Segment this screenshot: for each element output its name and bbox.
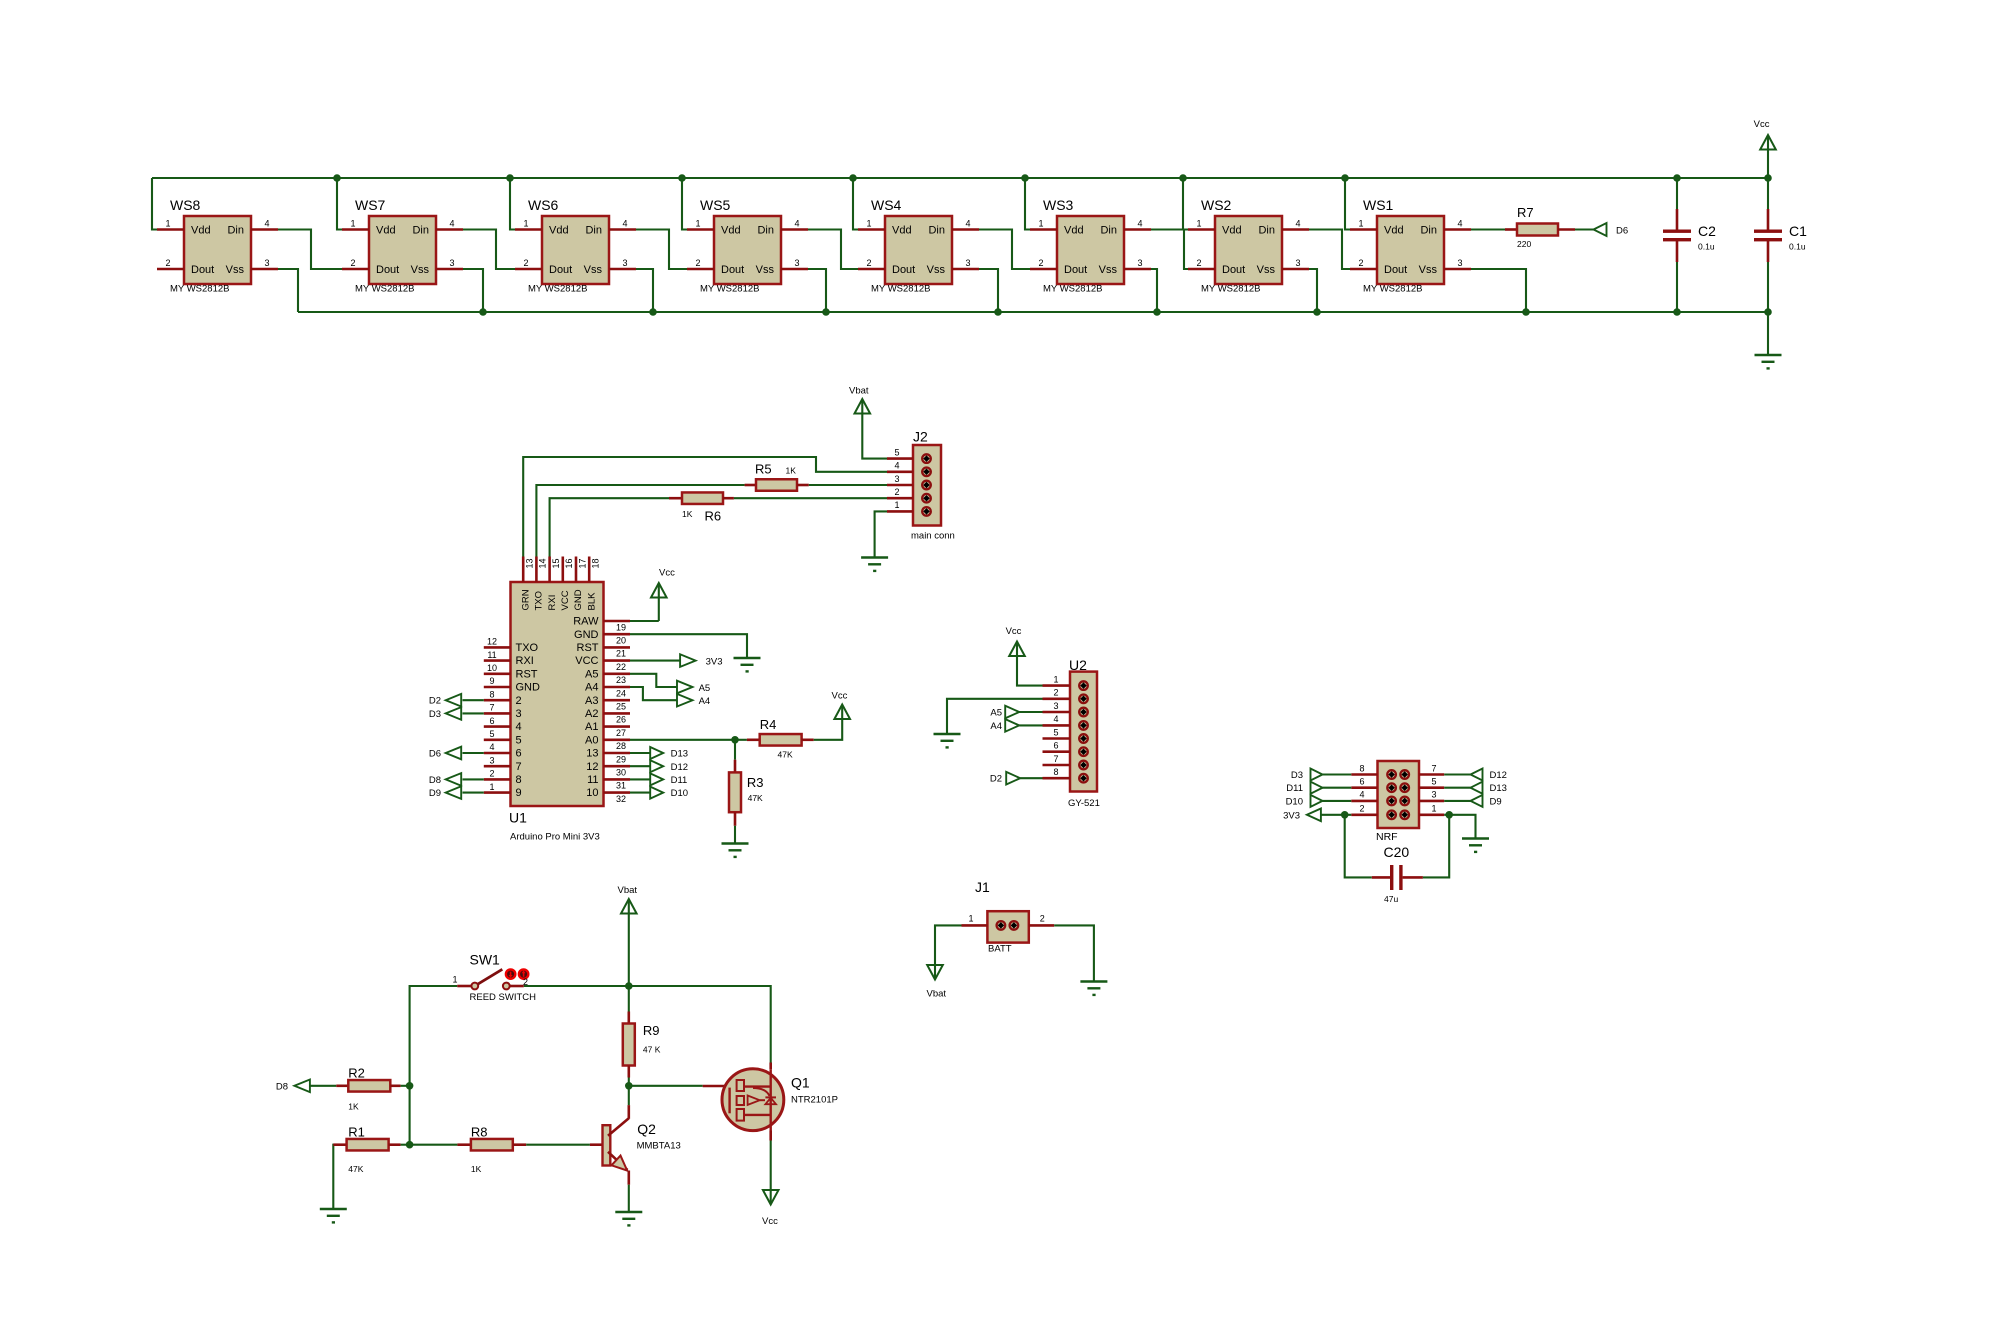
transistor Q1 (703, 1085, 725, 1088)
LED driver WS2 (1215, 216, 1282, 284)
svg-text:1: 1 (1038, 219, 1043, 229)
U1 left pin stubs (484, 646, 511, 649)
svg-text:3V3: 3V3 (706, 657, 723, 668)
svg-text:BATT: BATT (988, 944, 1012, 955)
svg-text:3: 3 (489, 755, 494, 765)
svg-text:Q1: Q1 (791, 1075, 810, 1091)
svg-text:MY WS2812B: MY WS2812B (700, 284, 760, 295)
svg-text:4: 4 (1295, 219, 1300, 229)
net label terminal D11 (650, 773, 663, 785)
svg-text:TXO: TXO (534, 591, 545, 611)
WS3 pin 2 Dout stub (1030, 268, 1057, 271)
svg-text:2: 2 (1053, 688, 1058, 698)
LED driver WS4 (885, 216, 952, 284)
wire R1 ground branch (333, 1145, 348, 1209)
net label terminal D6 (1594, 223, 1607, 236)
svg-text:4: 4 (449, 219, 454, 229)
svg-text:MY WS2812B: MY WS2812B (355, 284, 415, 295)
WS2 pin 4 Din stub (1282, 228, 1309, 231)
wire A4 to U2 pin 4 (1019, 724, 1042, 726)
svg-text:GY-521: GY-521 (1068, 798, 1100, 809)
svg-text:MMBTA13: MMBTA13 (637, 1141, 681, 1152)
wire NRF pin 1 to ground (1444, 815, 1475, 839)
svg-text:22: 22 (616, 662, 626, 672)
svg-text:C2: C2 (1698, 223, 1716, 239)
svg-text:Vss: Vss (1419, 264, 1438, 276)
wire WS1 Vss to bottom bus (1471, 269, 1526, 312)
net label terminal D13 (650, 747, 663, 759)
wire switch node to Q1 source (629, 986, 771, 1063)
svg-text:MY WS2812B: MY WS2812B (170, 284, 230, 295)
svg-text:18: 18 (591, 558, 601, 568)
WS8 pin 1 Vdd stub (157, 228, 184, 231)
svg-text:D9: D9 (1490, 796, 1502, 807)
wire WS6 Vss to bottom bus (636, 269, 653, 312)
svg-text:R3: R3 (747, 775, 764, 790)
svg-text:2: 2 (1359, 804, 1364, 814)
WS1 pin 3 Vss stub (1444, 268, 1471, 271)
svg-text:6: 6 (489, 716, 494, 726)
svg-text:2: 2 (516, 695, 522, 707)
svg-text:1: 1 (489, 782, 494, 792)
switch SW1 (457, 985, 471, 988)
svg-text:19: 19 (616, 622, 626, 632)
WS8 pin 4 Din stub (251, 228, 278, 231)
svg-text:3: 3 (965, 258, 970, 268)
svg-text:20: 20 (616, 636, 626, 646)
wire top bus to C2 (1676, 178, 1678, 209)
svg-text:A4: A4 (699, 696, 711, 707)
svg-text:3: 3 (264, 258, 269, 268)
svg-text:32: 32 (616, 794, 626, 804)
svg-text:Vss: Vss (927, 264, 946, 276)
svg-text:Vdd: Vdd (1064, 225, 1084, 237)
svg-text:9: 9 (516, 787, 522, 799)
wire U2 pin 2 to ground (947, 699, 1043, 734)
power terminal Vbat down at J1 (927, 965, 943, 980)
svg-text:D2: D2 (990, 774, 1002, 785)
svg-text:5: 5 (894, 447, 899, 457)
WS5 pin 4 Din stub (781, 228, 808, 231)
LED driver WS8 (184, 216, 251, 284)
svg-text:Dout: Dout (892, 264, 915, 276)
svg-text:4: 4 (1457, 219, 1462, 229)
power terminal Vbat at switch node (628, 914, 630, 987)
svg-text:R8: R8 (471, 1125, 488, 1140)
wire WS8 Vss to bottom bus (278, 269, 298, 312)
junction top bus WS4 (849, 174, 857, 182)
svg-text:5: 5 (1053, 727, 1058, 737)
svg-text:D6: D6 (429, 748, 441, 759)
net label terminal D12 (650, 760, 663, 772)
WS3 pin 1 Vdd stub (1030, 228, 1057, 231)
wire NRF to D9 (1444, 800, 1470, 802)
wire U1 pin14 TXO to R5 (536, 485, 744, 557)
svg-text:WS7: WS7 (355, 197, 386, 213)
wire switch to Vbat junction (524, 985, 629, 987)
net label terminal A5 at U2 (1005, 706, 1019, 719)
svg-text:main conn: main conn (911, 531, 955, 542)
svg-text:A5: A5 (585, 668, 598, 680)
svg-text:MY WS2812B: MY WS2812B (1201, 284, 1261, 295)
NRF pin circles (1387, 770, 1396, 779)
svg-text:REED SWITCH: REED SWITCH (470, 992, 537, 1003)
net label terminal D6 (446, 747, 462, 760)
svg-text:GND: GND (574, 629, 599, 641)
power terminal Vcc at R4 (834, 705, 850, 720)
net label terminal D11 at NRF (1311, 782, 1323, 794)
svg-text:WS3: WS3 (1043, 197, 1074, 213)
svg-text:R9: R9 (643, 1023, 660, 1038)
svg-text:Arduino Pro Mini 3V3: Arduino Pro Mini 3V3 (510, 832, 600, 843)
net label terminal D10 at NRF (1311, 795, 1323, 807)
svg-text:Vcc: Vcc (1754, 119, 1770, 130)
svg-text:1: 1 (1431, 804, 1436, 814)
svg-text:SW1: SW1 (470, 952, 501, 968)
WS1 pin 1 Vdd stub (1350, 228, 1377, 231)
svg-text:WS2: WS2 (1201, 197, 1232, 213)
svg-text:Vbat: Vbat (849, 386, 869, 397)
svg-text:3V3: 3V3 (1283, 810, 1300, 821)
resistor R6 (669, 497, 682, 500)
svg-text:1: 1 (1053, 674, 1058, 684)
svg-text:6: 6 (1359, 777, 1364, 787)
svg-text:A5: A5 (699, 683, 711, 694)
NRF pin stubs right (1419, 773, 1444, 776)
svg-text:10: 10 (586, 787, 598, 799)
wire gate node to Q1 gate (629, 1085, 703, 1087)
resistor R7 (1471, 228, 1505, 230)
wire D3 to NRF (1323, 773, 1352, 775)
svg-text:C20: C20 (1384, 844, 1410, 860)
svg-text:Din: Din (227, 225, 244, 237)
wire U1 pin 10 to D10 (630, 792, 650, 794)
svg-text:R4: R4 (760, 717, 777, 732)
WS8 pin 3 Vss stub (251, 268, 278, 271)
svg-text:1K: 1K (682, 509, 693, 519)
wire WS4 Vss to bottom bus (979, 269, 998, 312)
svg-text:4: 4 (794, 219, 799, 229)
svg-text:4: 4 (894, 461, 899, 471)
svg-text:A4: A4 (990, 721, 1002, 732)
svg-text:D3: D3 (1291, 770, 1303, 781)
WS6 pin 2 Dout stub (515, 268, 542, 271)
svg-text:D10: D10 (671, 788, 688, 799)
svg-text:23: 23 (616, 675, 626, 685)
wire WS5 Vss to bottom bus (808, 269, 826, 312)
wire bottom bus to ground (1767, 312, 1769, 355)
svg-text:4: 4 (516, 721, 522, 733)
svg-text:7: 7 (1431, 763, 1436, 773)
svg-text:R7: R7 (1517, 205, 1534, 220)
net label terminal D3 at NRF (1311, 769, 1323, 781)
svg-text:BLK: BLK (586, 592, 597, 611)
svg-text:5: 5 (1431, 777, 1436, 787)
wire U1 RAW to Vcc (630, 620, 659, 622)
wire R6 to J2 pin 2 (734, 497, 887, 499)
wire U1 pin13 GRN to J2 pin 4 (523, 457, 887, 557)
svg-text:15: 15 (551, 558, 561, 568)
WS6 pin 1 Vdd stub (515, 228, 542, 231)
svg-text:1K: 1K (348, 1102, 359, 1112)
svg-text:A3: A3 (585, 695, 598, 707)
LED driver WS5 (714, 216, 781, 284)
junction top bus WS6 (506, 174, 514, 182)
wire switch left branch (410, 986, 458, 1086)
net label terminal D10 (650, 787, 663, 799)
svg-text:RST: RST (577, 642, 599, 654)
svg-text:Q2: Q2 (637, 1121, 656, 1137)
svg-text:Vbat: Vbat (927, 989, 947, 1000)
svg-text:D10: D10 (1286, 796, 1303, 807)
wire D11 to NRF (1323, 787, 1352, 789)
svg-text:Din: Din (412, 225, 429, 237)
wire U1 left to D8 (463, 778, 484, 780)
junction switch Vbat R9 (625, 982, 633, 990)
svg-text:26: 26 (616, 715, 626, 725)
svg-text:Vdd: Vdd (1222, 225, 1242, 237)
wire J1 pin 1 to Vbat (935, 925, 962, 964)
SW1 toggle indicators (506, 969, 515, 978)
junction A0 node (731, 736, 739, 744)
svg-text:3: 3 (794, 258, 799, 268)
ground at J2 (861, 556, 888, 559)
wire WS3 Vss to bottom bus (1151, 269, 1157, 312)
svg-text:MY WS2812B: MY WS2812B (871, 284, 931, 295)
wire top bus to WS1 Vdd (1345, 178, 1350, 230)
WS2 pin 2 Dout stub (1188, 268, 1215, 271)
wire U1 A0 to R4 R3 node (630, 739, 735, 741)
WS6 pin 4 Din stub (609, 228, 636, 231)
net label terminal A4 (677, 694, 693, 707)
svg-text:47K: 47K (778, 749, 793, 759)
wire WS2 Din to WS1 Dout (1309, 230, 1350, 270)
wire Q1 drain to Vcc (770, 1141, 772, 1190)
wire U1 GND to ground (630, 634, 747, 658)
svg-text:Din: Din (585, 225, 602, 237)
svg-text:A2: A2 (585, 708, 598, 720)
svg-text:3: 3 (1295, 258, 1300, 268)
capacitor C2 (1676, 209, 1679, 231)
svg-text:7: 7 (489, 703, 494, 713)
svg-text:D13: D13 (1490, 783, 1507, 794)
svg-text:5: 5 (489, 729, 494, 739)
svg-text:R5: R5 (755, 462, 772, 477)
svg-text:1K: 1K (786, 466, 797, 476)
WS4 pin 3 Vss stub (952, 268, 979, 271)
ground at Q2 (615, 1211, 642, 1214)
svg-text:2: 2 (350, 258, 355, 268)
svg-text:Din: Din (1100, 225, 1117, 237)
svg-text:Vcc: Vcc (1006, 626, 1022, 637)
svg-text:MY WS2812B: MY WS2812B (1363, 284, 1423, 295)
svg-text:1: 1 (350, 219, 355, 229)
resistor R5 (745, 484, 756, 487)
svg-text:Vss: Vss (1257, 264, 1276, 276)
junction bottom bus WS5 (822, 308, 830, 316)
power terminal Vcc top right (1767, 150, 1769, 179)
svg-text:A5: A5 (990, 708, 1002, 719)
WS6 pin 3 Vss stub (609, 268, 636, 271)
svg-text:NRF: NRF (1376, 831, 1398, 843)
svg-text:Vss: Vss (584, 264, 603, 276)
WS4 pin 4 Din stub (952, 228, 979, 231)
svg-text:220: 220 (1517, 239, 1531, 249)
junction top bus WS1 (1341, 174, 1349, 182)
svg-text:2: 2 (1040, 914, 1045, 924)
junction top bus C2 (1673, 174, 1681, 182)
svg-text:Vcc: Vcc (832, 691, 848, 702)
svg-text:Dout: Dout (1384, 264, 1407, 276)
ground at NRF (1462, 837, 1489, 840)
svg-text:Vdd: Vdd (549, 225, 569, 237)
svg-text:GND: GND (516, 682, 541, 694)
svg-text:J1: J1 (975, 879, 990, 895)
wire R2 node down to R1 node (409, 1086, 411, 1145)
junction R9 Q2 collector gate (625, 1082, 633, 1090)
svg-text:21: 21 (616, 649, 626, 659)
svg-text:13: 13 (586, 748, 598, 760)
svg-text:J2: J2 (913, 429, 928, 445)
WS2 pin 3 Vss stub (1282, 268, 1309, 271)
svg-text:RXI: RXI (547, 595, 558, 611)
svg-text:D12: D12 (671, 762, 688, 773)
ground at R1 (320, 1208, 347, 1211)
resistor R3 (734, 740, 736, 760)
svg-text:28: 28 (616, 741, 626, 751)
connector J2 (913, 445, 941, 526)
svg-text:0.1u: 0.1u (1698, 242, 1715, 252)
wire U1 left to D6 (463, 752, 484, 754)
svg-text:6: 6 (1053, 741, 1058, 751)
wire top bus to WS6 Vdd (510, 178, 515, 230)
J1 pin circles (997, 921, 1006, 930)
wire WS7 Vss to bottom bus (463, 269, 483, 312)
svg-text:A0: A0 (585, 734, 598, 746)
LED driver WS6 (542, 216, 609, 284)
svg-text:Dout: Dout (721, 264, 744, 276)
svg-text:Vcc: Vcc (762, 1216, 778, 1227)
ground at U2 (934, 733, 961, 736)
wire R2 to node (401, 1085, 410, 1087)
svg-text:WS8: WS8 (170, 197, 201, 213)
WS2 pin 1 Vdd stub (1188, 228, 1215, 231)
svg-text:3: 3 (449, 258, 454, 268)
net label terminal D13 at NRF (1471, 782, 1483, 794)
wire WS5 Din to WS4 Dout (808, 230, 858, 270)
transistor Q2 (590, 1143, 603, 1146)
net label terminal D9 at NRF (1471, 795, 1483, 807)
svg-text:1: 1 (1196, 219, 1201, 229)
U2 pin circles (1079, 681, 1088, 690)
svg-text:TXO: TXO (516, 642, 539, 654)
wire top bus to C1 (1767, 178, 1769, 209)
wire C2 to bottom bus (1676, 262, 1678, 312)
power terminal Vcc at U2 (1009, 642, 1025, 657)
svg-text:3: 3 (1431, 790, 1436, 800)
junction bottom bus WS4 (994, 308, 1002, 316)
junction R1 R8 node (406, 1141, 414, 1149)
WS5 pin 2 Dout stub (687, 268, 714, 271)
svg-text:2: 2 (165, 258, 170, 268)
junction top bus WS3 (1021, 174, 1029, 182)
junction bottom bus WS3 (1153, 308, 1161, 316)
svg-text:Vdd: Vdd (191, 225, 211, 237)
junction bottom bus WS6 (649, 308, 657, 316)
net label terminal D12 at NRF (1471, 769, 1483, 781)
connector U2 GY-521 (1070, 672, 1097, 792)
svg-text:3: 3 (1137, 258, 1142, 268)
ground at U1 GND (734, 657, 761, 660)
wire U1 left to D9 (463, 792, 484, 794)
svg-text:Vdd: Vdd (376, 225, 396, 237)
power terminal Vcc at RAW (651, 583, 667, 598)
resistor R2 (336, 1085, 348, 1088)
wire U1 pin 12 to D12 (630, 765, 650, 767)
svg-text:Vss: Vss (756, 264, 775, 276)
wire top bus to WS5 Vdd (682, 178, 687, 230)
net label terminal 3V3 (680, 654, 696, 667)
svg-text:4: 4 (622, 219, 627, 229)
svg-text:D13: D13 (671, 749, 688, 760)
capacitor C1 (1767, 209, 1770, 231)
capacitor C20 (1372, 876, 1390, 879)
Arduino module U1 (511, 582, 604, 806)
resistor R4 (735, 739, 747, 741)
WS5 pin 3 Vss stub (781, 268, 808, 271)
wire U1 left to D3 (463, 712, 484, 714)
J2 pin stubs (887, 457, 913, 460)
svg-text:VCC: VCC (575, 655, 598, 667)
svg-text:4: 4 (489, 742, 494, 752)
svg-text:14: 14 (538, 558, 548, 568)
ground top right (1755, 354, 1782, 357)
resistor R8 (457, 1143, 471, 1146)
svg-text:WS6: WS6 (528, 197, 559, 213)
ground at J1 (1080, 980, 1107, 983)
LED driver WS3 (1057, 216, 1124, 284)
WS7 pin 4 Din stub (436, 228, 463, 231)
svg-text:4: 4 (1359, 790, 1364, 800)
junction R2 node (406, 1082, 414, 1090)
svg-text:RAW: RAW (573, 616, 599, 628)
svg-text:WS4: WS4 (871, 197, 902, 213)
svg-text:17: 17 (577, 558, 587, 568)
svg-text:1: 1 (452, 975, 457, 985)
svg-text:Vdd: Vdd (721, 225, 741, 237)
svg-text:4: 4 (264, 219, 269, 229)
svg-text:D8: D8 (276, 1081, 288, 1092)
svg-text:1K: 1K (471, 1164, 482, 1174)
wire WS8 Din to WS7 Dout (278, 230, 342, 270)
wire NRF to D12 (1444, 773, 1470, 775)
wire Vss bottom bus (298, 311, 1768, 313)
wire D8 to R2 (310, 1085, 336, 1087)
WS3 pin 3 Vss stub (1124, 268, 1151, 271)
junction bottom bus WS1 (1522, 308, 1530, 316)
svg-text:Dout: Dout (549, 264, 572, 276)
svg-text:Dout: Dout (376, 264, 399, 276)
WS1 pin 2 Dout stub (1350, 268, 1377, 271)
wire R4 to Vcc (814, 719, 843, 740)
power terminal Vbat at J2 (855, 399, 871, 414)
WS7 pin 2 Dout stub (342, 268, 369, 271)
svg-text:VCC: VCC (560, 590, 571, 610)
svg-text:Din: Din (1420, 225, 1437, 237)
svg-text:3: 3 (1457, 258, 1462, 268)
LED driver WS1 (1377, 216, 1444, 284)
WS3 pin 4 Din stub (1124, 228, 1151, 231)
